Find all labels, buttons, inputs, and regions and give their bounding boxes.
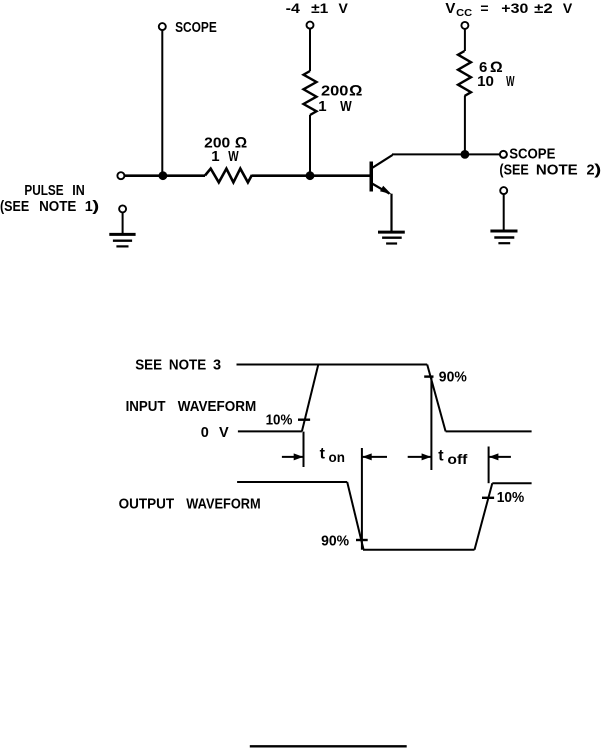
terminal: scope 2: [500, 151, 507, 158]
svg-text:90%: 90%: [321, 533, 349, 549]
svg-text:10%: 10%: [266, 413, 293, 429]
svg-text:W: W: [228, 148, 239, 165]
node: base junction: [306, 171, 315, 180]
input waveform 0V line left: [238, 430, 302, 432]
wire: -4V supply to resistor: [309, 29, 311, 71]
ground (emitter): [378, 232, 405, 243]
input waveform falling edge: [427, 365, 445, 432]
svg-text:0: 0: [201, 425, 209, 441]
wire: scope1 vertical: [161, 31, 163, 176]
svg-text:V: V: [219, 425, 229, 441]
svg-text:NOTE: NOTE: [169, 358, 207, 374]
terminal: VCC supply: [461, 22, 468, 29]
terminal: scope 1: [159, 23, 166, 30]
transistor Q1 base bar: [370, 162, 374, 192]
svg-text:W: W: [340, 98, 352, 115]
output waveform falling edge: [347, 482, 363, 549]
svg-text:90%: 90%: [439, 370, 467, 386]
svg-text:on: on: [329, 449, 345, 465]
bottom rule: [250, 745, 407, 747]
wire: emitter vertical: [390, 194, 392, 232]
svg-text:1: 1: [211, 148, 219, 165]
svg-text:3: 3: [213, 358, 221, 374]
tick 10% input: [298, 419, 310, 421]
terminal: -4V supply: [307, 22, 314, 29]
svg-text:±1: ±1: [311, 0, 328, 16]
tick 90% input: [424, 375, 433, 377]
svg-text:±2: ±2: [534, 0, 553, 16]
arrow t_off left: [408, 456, 431, 458]
svg-text:): ): [594, 163, 601, 179]
terminal: pulse in: [117, 172, 124, 179]
svg-text:CC: CC: [456, 7, 472, 19]
svg-text:): ): [92, 199, 99, 215]
ground (pulse in): [109, 213, 135, 247]
tick 90% output: [356, 539, 368, 541]
terminal: scope2 ground: [500, 187, 507, 194]
tick 10% output: [482, 497, 494, 499]
svg-text:V: V: [445, 0, 455, 17]
dimension line t_off right: [488, 447, 490, 484]
svg-text:SCOPE: SCOPE: [175, 20, 217, 36]
svg-text:off: off: [447, 451, 467, 467]
svg-text:(SEE: (SEE: [499, 163, 529, 179]
terminal: pulse-in ground: [119, 205, 126, 212]
svg-text:INPUT: INPUT: [126, 399, 166, 415]
svg-text:NOTE: NOTE: [39, 199, 77, 215]
svg-text:1: 1: [318, 98, 326, 115]
input waveform top line: [237, 364, 428, 366]
svg-text:t: t: [320, 445, 326, 462]
transistor Q1 emitter lead with arrow: [372, 184, 390, 194]
dimension line t_on left: [303, 432, 305, 467]
output waveform top left line: [237, 481, 347, 483]
svg-text:V: V: [339, 0, 349, 16]
svg-text:10: 10: [477, 73, 494, 90]
ground (scope 2): [490, 195, 517, 244]
svg-text:SEE: SEE: [135, 358, 162, 374]
svg-text:SCOPE: SCOPE: [509, 147, 555, 163]
svg-text:=: =: [480, 0, 488, 16]
dimension line t_on right: [361, 448, 363, 550]
wire: resistor to collector junction: [464, 96, 466, 154]
output waveform top right line: [492, 482, 531, 484]
svg-text:WAVEFORM: WAVEFORM: [186, 497, 260, 513]
dimension line t_off left: [430, 377, 432, 470]
output waveform rising edge: [475, 483, 493, 550]
svg-text:OUTPUT: OUTPUT: [119, 497, 175, 513]
wire: resistor to base: [252, 174, 370, 177]
svg-text:WAVEFORM: WAVEFORM: [178, 399, 256, 415]
input waveform rising edge: [302, 365, 318, 432]
arrow t_off right: [489, 456, 511, 458]
wire: collector horizontal: [392, 153, 500, 155]
resistor 6 ohm 10 W: [458, 51, 471, 96]
node: input junction: [159, 171, 168, 180]
arrow t_on right: [363, 456, 388, 458]
wire: input to resistor: [125, 174, 205, 177]
svg-text:W: W: [506, 73, 515, 90]
wire: resistor to base junction: [309, 115, 311, 176]
node: collector junction: [461, 150, 470, 159]
svg-text:10%: 10%: [497, 490, 525, 506]
output waveform bottom line: [363, 549, 475, 551]
svg-text:+30: +30: [501, 0, 528, 16]
svg-text:t: t: [438, 447, 444, 464]
input waveform 0V line right: [446, 430, 532, 432]
transistor Q1 collector lead: [372, 155, 393, 168]
svg-text:PULSE: PULSE: [24, 183, 63, 199]
resistor 200 ohm 1 W (vertical): [304, 71, 317, 115]
svg-text:-4: -4: [286, 0, 300, 16]
svg-text:NOTE: NOTE: [536, 163, 578, 179]
svg-text:IN: IN: [72, 183, 85, 199]
resistor 200 ohm 1 W (horizontal): [205, 169, 252, 183]
wire: VCC supply to resistor: [464, 29, 466, 51]
svg-text:(SEE: (SEE: [0, 199, 29, 215]
svg-text:V: V: [563, 0, 573, 16]
arrow t_on left: [282, 456, 303, 458]
